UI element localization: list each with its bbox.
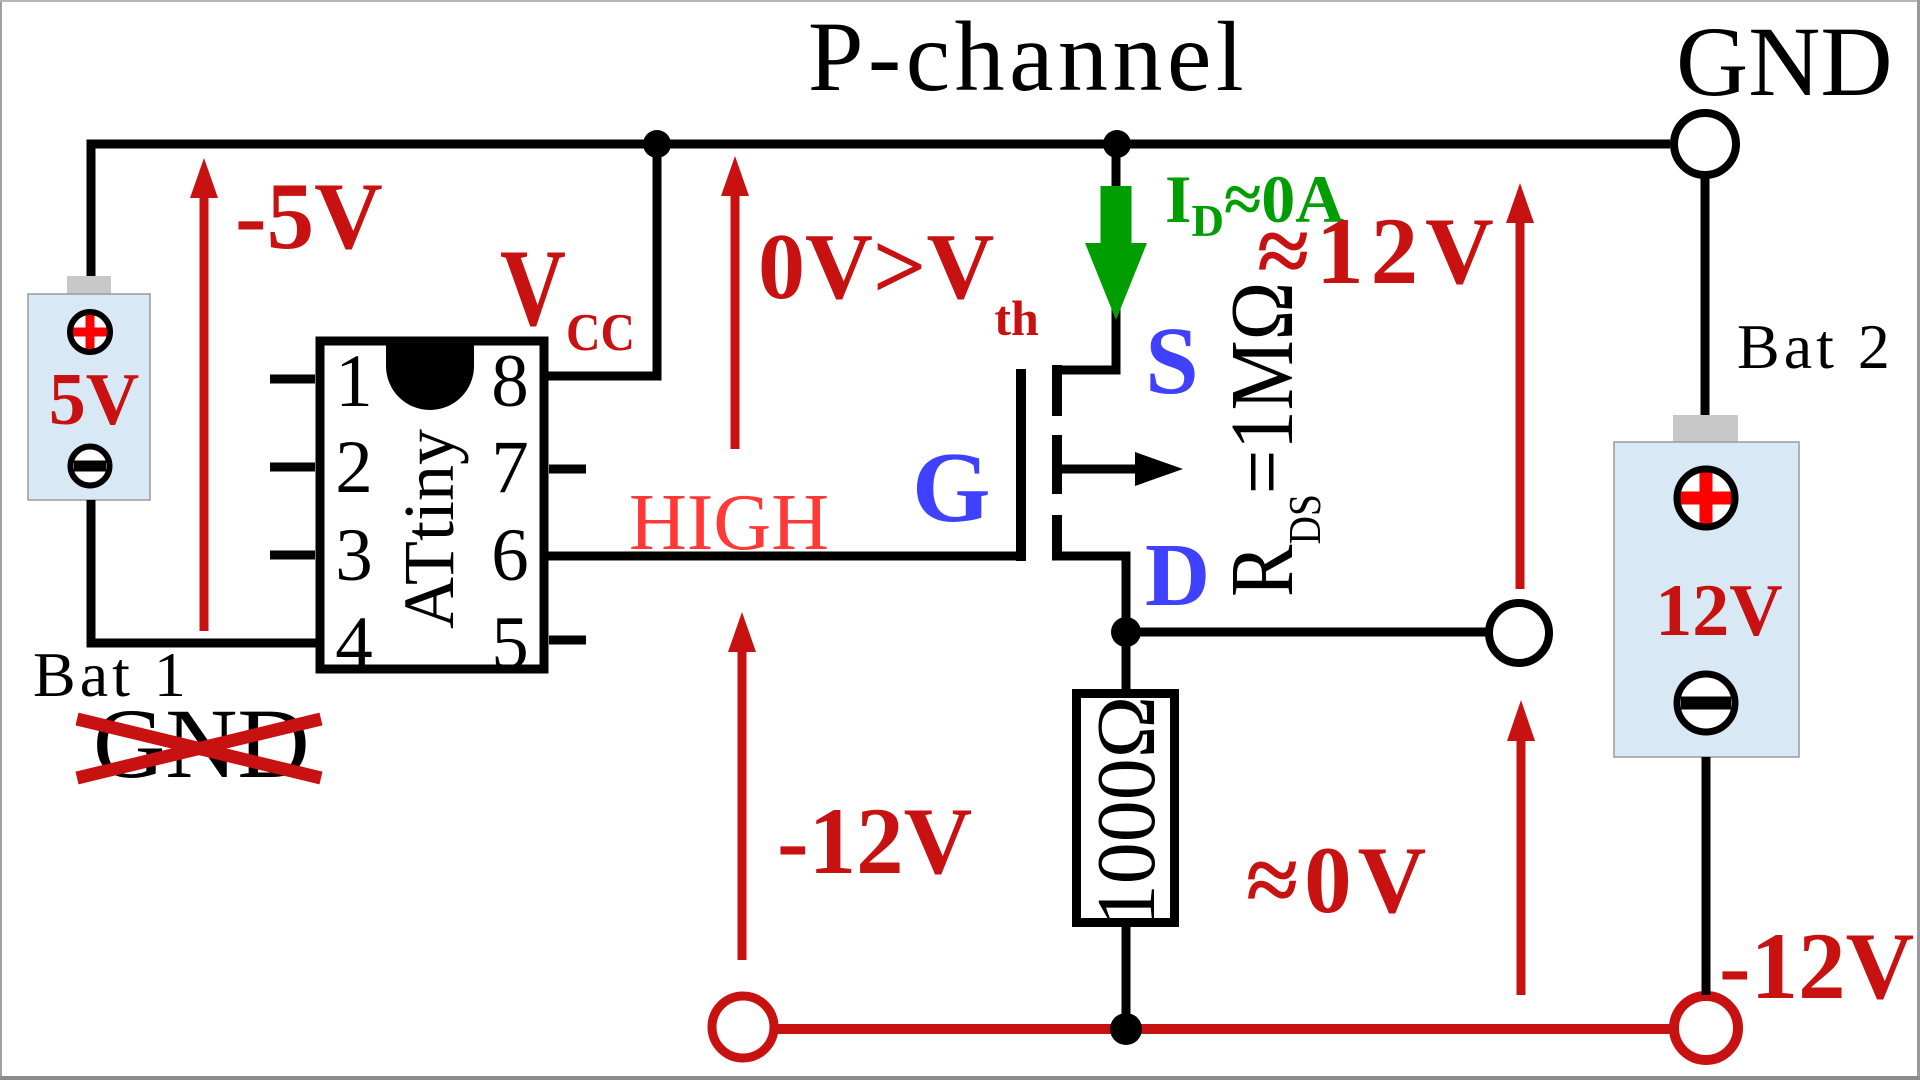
wire: top rail from battery 1 to GND terminal <box>91 144 1670 276</box>
svg-text:V: V <box>500 227 566 349</box>
node drain junction <box>1111 617 1141 647</box>
node B (source tap on top rail) <box>1103 130 1131 158</box>
svg-text:5V: 5V <box>49 359 139 441</box>
red cross line 1 <box>77 719 321 778</box>
red cross line 2 <box>77 719 321 778</box>
battery Bat 2 (12V) <box>1614 415 1799 757</box>
svg-text:GND: GND <box>1676 6 1893 117</box>
node on bottom rail <box>1110 1013 1142 1045</box>
wire: battery 1 minus to pin 4 <box>91 500 316 643</box>
svg-text:8: 8 <box>491 340 529 423</box>
Q1 drain connection <box>1052 556 1126 632</box>
terminal bottom-left (red open circle) <box>712 996 774 1058</box>
pin 7 stub <box>549 465 586 474</box>
terminal drain (open circle) <box>1489 603 1549 663</box>
svg-text:2: 2 <box>335 426 373 509</box>
frame border left <box>0 0 2 1080</box>
IC U1 ATtiny body <box>320 341 544 669</box>
frame border top <box>0 0 1920 2</box>
Q1 channel dash segment 2 <box>1052 435 1062 494</box>
svg-text:D: D <box>1145 526 1210 625</box>
svg-text:7: 7 <box>491 426 529 509</box>
pin 3 stub <box>270 551 315 560</box>
pin 5 stub <box>549 636 586 645</box>
pin 2 stub <box>270 463 315 472</box>
resistor R1 1000Ω <box>1077 694 1175 923</box>
node A (Vcc tap on top rail) <box>643 130 671 158</box>
arrow -5V <box>190 158 218 631</box>
wire: resistor to bottom rail <box>1122 927 1131 1029</box>
arrow -12V (middle) <box>728 612 756 960</box>
svg-text:P-channel: P-channel <box>808 1 1248 112</box>
svg-text:6: 6 <box>491 514 529 597</box>
Q1 body arrow <box>1057 452 1183 486</box>
arrow 0V>Vth <box>721 156 749 449</box>
svg-text:ATtiny: ATtiny <box>389 429 469 629</box>
wire: pin 6 to gate (HIGH net) <box>544 552 1021 561</box>
svg-text:3: 3 <box>335 514 373 597</box>
svg-text:1000Ω: 1000Ω <box>1080 696 1173 926</box>
terminal GND (open circle) <box>1674 113 1736 175</box>
svg-text:5: 5 <box>491 602 529 685</box>
svg-text:-12V: -12V <box>1719 913 1914 1019</box>
wire: battery 2 minus to -12V terminal <box>1702 757 1711 995</box>
wire: drain node to terminal <box>1126 628 1489 637</box>
svg-text:-5V: -5V <box>235 163 383 269</box>
wire: Vcc from node A down to pin 8 <box>548 144 657 376</box>
svg-text:Bat 2: Bat 2 <box>1737 311 1894 382</box>
battery Bat 1 (5V) <box>28 276 150 500</box>
svg-text:-12V: -12V <box>777 788 972 894</box>
transistor Q1 P-MOSFET gate bar <box>1016 369 1026 561</box>
red bottom rail wire <box>775 1024 1672 1034</box>
svg-text:12V: 12V <box>1655 570 1782 652</box>
svg-text:≈12V: ≈12V <box>1257 198 1501 304</box>
svg-text:≈0V: ≈0V <box>1246 827 1432 933</box>
svg-text:CC: CC <box>566 303 635 362</box>
Q1 channel dash segment 1 <box>1052 365 1062 416</box>
Q1 channel dash segment 3 <box>1052 515 1062 560</box>
svg-text:1: 1 <box>335 340 373 423</box>
Q1 source connection <box>1052 144 1116 370</box>
svg-text:S: S <box>1145 307 1198 414</box>
terminal bottom-right (red open circle) <box>1674 996 1738 1060</box>
svg-text:G: G <box>912 431 991 543</box>
pin 1 stub <box>270 375 315 384</box>
svg-text:HIGH: HIGH <box>629 479 829 567</box>
wire: drain node down to resistor <box>1122 632 1131 690</box>
IC notch <box>386 341 474 410</box>
svg-text:4: 4 <box>335 602 373 685</box>
green current arrow Id <box>1085 186 1147 320</box>
arrow ≈12V <box>1506 183 1534 589</box>
wire: GND terminal to battery 2 <box>1701 175 1710 415</box>
frame border bottom <box>0 1076 1920 1080</box>
frame border right <box>1917 0 1920 1080</box>
arrow ≈0V <box>1507 700 1535 995</box>
